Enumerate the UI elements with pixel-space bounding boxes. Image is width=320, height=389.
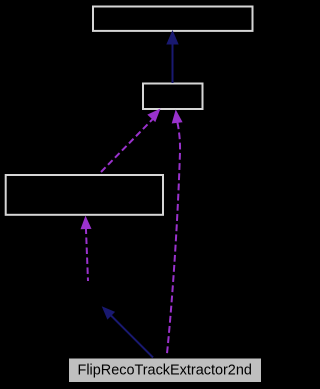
class box FlipRecoTrackExtractor2nd (current class): [69, 358, 262, 383]
usage arrow FlipRecoTrackExtractor2nd to middle box (dashed darkorchid long spline): [167, 110, 183, 354]
inheritance arrow FlipRecoTrackExtractor2nd to hidden base (solid midnightblue diagonal): [102, 306, 153, 357]
usage arrow hidden node to left box (dashed darkorchid short): [81, 216, 92, 281]
class box middle (derived helper class, label hidden): [143, 84, 203, 110]
class box top (base class, label hidden): [93, 7, 253, 31]
usage arrow left box to middle box (dashed darkorchid diagonal): [101, 109, 161, 173]
svg-text:FlipRecoTrackExtractor2nd: FlipRecoTrackExtractor2nd: [78, 363, 252, 379]
inheritance arrow middle box to top box (solid midnightblue): [166, 30, 178, 83]
class box left (member type class, label hidden, two-line): [6, 175, 163, 215]
